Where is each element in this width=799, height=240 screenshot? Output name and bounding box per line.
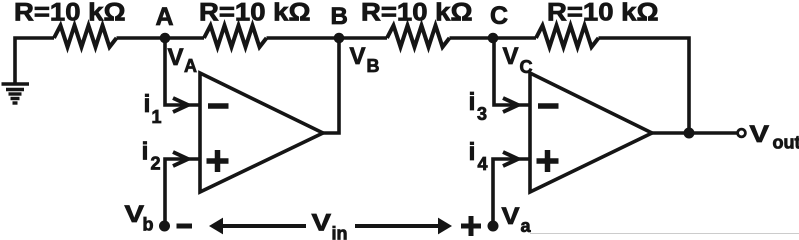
svg-text:in: in <box>332 224 348 240</box>
U2 inverting input minus sign <box>538 103 559 109</box>
svg-text:R=10 kΩ: R=10 kΩ <box>361 0 473 27</box>
current arrow i1 (into U1 inverting input) <box>173 98 188 112</box>
svg-text:2: 2 <box>151 154 161 174</box>
current arrow i3 (into U2 inverting input) <box>503 98 518 112</box>
output junction node <box>684 128 695 139</box>
svg-text:i: i <box>142 138 149 166</box>
node C <box>488 33 499 44</box>
wire: R3 to node C to R4 <box>450 36 537 40</box>
svg-text:out: out <box>773 133 799 153</box>
current arrow i2 (into U1 non-inverting input) <box>173 152 188 166</box>
op-amp U2 body <box>530 73 652 192</box>
svg-text:V: V <box>125 201 145 228</box>
U1 inverting input minus sign <box>208 103 229 109</box>
faint scan edge line <box>530 233 799 235</box>
svg-text:B: B <box>331 3 348 30</box>
resistor R4 <box>536 26 599 48</box>
svg-text:V: V <box>168 44 184 71</box>
svg-text:V: V <box>312 210 332 237</box>
Vin polarity minus sign (left) <box>177 224 193 229</box>
node A <box>160 33 171 44</box>
node Va <box>488 221 499 232</box>
wire: R2 to node B to R3 <box>267 36 388 40</box>
svg-text:a: a <box>521 216 532 236</box>
resistor R3 <box>387 26 450 48</box>
svg-text:1: 1 <box>152 107 162 127</box>
Vin left arrow <box>209 218 306 235</box>
svg-text:C: C <box>490 2 508 30</box>
svg-text:R=10 kΩ: R=10 kΩ <box>199 0 311 27</box>
ground <box>2 84 30 103</box>
svg-text:4: 4 <box>478 154 488 174</box>
wire: R1 to node A to R2 (main rail) <box>117 36 205 40</box>
node Vb <box>159 221 170 232</box>
svg-text:i: i <box>144 90 151 118</box>
svg-text:i: i <box>469 138 476 166</box>
svg-text:i: i <box>469 88 476 116</box>
Vin polarity plus sign (right) <box>461 216 481 236</box>
svg-text:V: V <box>503 43 519 70</box>
svg-text:R=10 kΩ: R=10 kΩ <box>547 0 659 27</box>
node B <box>334 33 345 44</box>
wire: node C down to U2 inverting input <box>494 38 529 105</box>
U1 non-inverting input plus sign <box>207 150 229 172</box>
resistor R2 <box>204 26 267 48</box>
wire: U2 output to junction and Vout terminal <box>652 131 737 135</box>
svg-text:C: C <box>520 57 533 77</box>
svg-text:b: b <box>143 215 154 235</box>
wire: U1 output to node B <box>323 38 339 133</box>
op-amp U1 body <box>200 73 323 192</box>
wire: node A down to U1 inverting input <box>165 38 199 105</box>
wire: node Va up to U2 non-inverting input <box>493 159 529 226</box>
terminal Vout (open circle) <box>738 129 746 137</box>
svg-text:V: V <box>350 43 366 70</box>
svg-text:B: B <box>367 56 380 76</box>
wire: node Vb up to U1 non-inverting input <box>165 159 199 226</box>
svg-text:3: 3 <box>477 104 487 124</box>
U2 non-inverting input plus sign <box>537 150 559 172</box>
svg-text:A: A <box>184 56 197 76</box>
resistor R1 <box>54 26 117 48</box>
wire: R4 right end down to output junction <box>599 38 690 133</box>
svg-text:R=10 kΩ: R=10 kΩ <box>14 0 126 27</box>
wire: ground stem up and over to R1 <box>15 38 54 84</box>
svg-text:V: V <box>750 121 770 148</box>
svg-text:A: A <box>156 3 174 31</box>
svg-text:V: V <box>502 203 520 230</box>
Vin right arrow <box>355 218 452 235</box>
current arrow i4 (into U2 non-inverting input) <box>503 152 518 166</box>
